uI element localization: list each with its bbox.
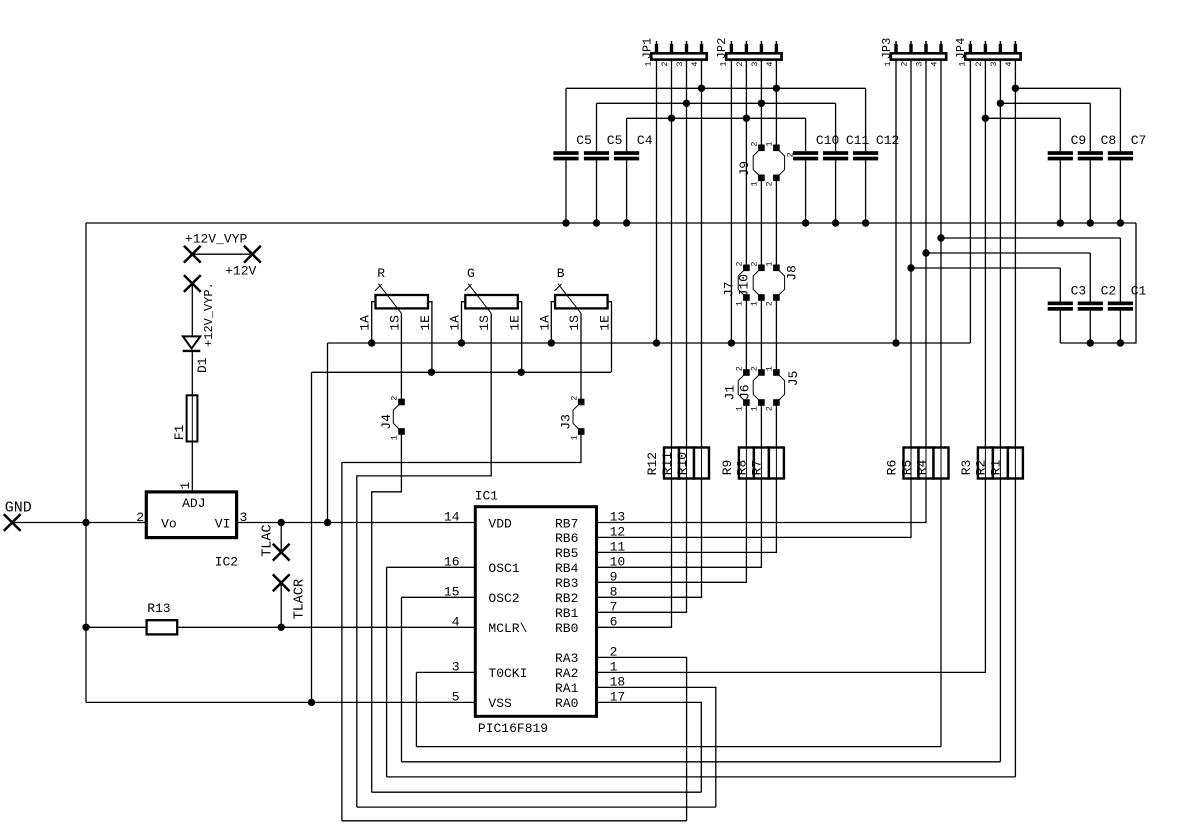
ground bus right leg down to C1-C3 ground xyxy=(1060,223,1136,343)
wire TLAC tap xyxy=(280,523,282,553)
svg-text:R12: R12 xyxy=(645,452,660,475)
wire RA3 pin2 loop xyxy=(597,657,687,820)
svg-text:C8: C8 xyxy=(1101,133,1117,148)
svg-text:RA2: RA2 xyxy=(555,666,578,681)
svg-text:2: 2 xyxy=(390,396,400,401)
wire F1 to IC2 ADJ pin1 xyxy=(191,442,193,492)
wire R3 to RA2 xyxy=(597,479,986,673)
wire R wiper to J4 xyxy=(400,313,402,402)
capacitor C8 xyxy=(1078,103,1117,223)
svg-text:JP3: JP3 xyxy=(880,38,894,60)
net wire C4-JP1.2-JP2.2-C10 xyxy=(627,117,806,119)
wire GND to IC2 VO xyxy=(12,522,146,524)
svg-text:C7: C7 xyxy=(1131,133,1147,148)
supply pin +12V_VYP xyxy=(184,231,248,262)
net wire JP3.4-C1 xyxy=(941,237,1120,239)
svg-text:1: 1 xyxy=(957,61,967,66)
supply pin +12V xyxy=(225,246,261,279)
wire JP3 pin1 to +12V rail xyxy=(895,60,897,343)
svg-text:MCLR\: MCLR\ xyxy=(488,621,527,636)
svg-text:1: 1 xyxy=(765,141,775,146)
svg-text:1E: 1E xyxy=(598,315,613,331)
svg-text:R4: R4 xyxy=(914,459,929,475)
svg-text:R2: R2 xyxy=(974,460,989,476)
wire R7 to RB5 xyxy=(597,479,777,553)
svg-text:2: 2 xyxy=(750,366,760,371)
svg-text:OSC2: OSC2 xyxy=(488,591,519,606)
jumper J10 xyxy=(735,261,752,306)
wire JP2 pin3 down to jumper J9 xyxy=(760,60,762,148)
net wire JP3.3-C2 xyxy=(926,252,1090,254)
potentiometer B xyxy=(537,266,612,372)
svg-text:1: 1 xyxy=(390,435,400,440)
svg-text:11: 11 xyxy=(610,539,626,554)
connector JP2 xyxy=(715,38,781,67)
svg-text:R3: R3 xyxy=(959,460,974,476)
svg-text:R8: R8 xyxy=(735,460,750,476)
svg-text:C4: C4 xyxy=(637,133,653,148)
wire VDD pin14 xyxy=(328,522,476,524)
wire JP2 pin3 J5 to R8 network xyxy=(760,403,762,448)
svg-text:9: 9 xyxy=(610,569,618,584)
svg-text:G: G xyxy=(467,266,475,281)
svg-text:7: 7 xyxy=(610,599,618,614)
wire OSC1 pin16 xyxy=(387,566,476,568)
wire JP3 pin3 down to R5 network xyxy=(925,60,927,448)
wire R11 to RB1 xyxy=(597,479,687,613)
wire R6 to RB6 xyxy=(597,479,912,538)
capacitor C5 xyxy=(584,103,623,223)
svg-text:Vo: Vo xyxy=(161,516,177,531)
wire RA3 bottom rail xyxy=(342,820,687,822)
svg-text:R5: R5 xyxy=(899,460,914,476)
svg-text:1S: 1S xyxy=(477,315,492,331)
svg-text:2: 2 xyxy=(765,301,775,306)
wire R2 to OSC2 rail xyxy=(999,479,1001,762)
svg-text:R11: R11 xyxy=(660,452,675,476)
wire through R12-R10 network xyxy=(671,448,673,479)
1E rail drop to VSS wire xyxy=(311,372,313,702)
supply pin TLACR xyxy=(273,574,308,619)
wire J4 to OSC-mesh (RA0 route) xyxy=(372,432,402,793)
resistor R12 xyxy=(664,448,679,479)
svg-text:8: 8 xyxy=(610,584,618,599)
VSS ground wire to IC1 xyxy=(86,701,475,703)
wire JP4 pin2 down to R3 network xyxy=(984,60,986,448)
voltage regulator IC2 xyxy=(136,492,247,569)
svg-text:J8: J8 xyxy=(785,265,800,281)
svg-text:2: 2 xyxy=(765,181,775,186)
svg-text:ADJ: ADJ xyxy=(182,496,205,511)
resistor R3 xyxy=(978,448,993,479)
wire JP2 pin2 J6 to R9 network xyxy=(745,403,747,448)
svg-text:J7: J7 xyxy=(721,281,736,297)
resistor R8 xyxy=(754,448,769,479)
wire JP2 pin4 down to jumper J9 xyxy=(775,60,777,148)
svg-text:+12V_VYP.: +12V_VYP. xyxy=(202,282,216,347)
svg-text:IC2: IC2 xyxy=(215,554,238,569)
potentiometer G xyxy=(448,266,523,372)
wire JP2 pin2 down to jumper J10 xyxy=(745,60,747,268)
wire D1 to fuse F1 xyxy=(191,351,193,395)
svg-text:RA3: RA3 xyxy=(555,651,578,666)
svg-text:2: 2 xyxy=(735,61,745,66)
svg-text:3: 3 xyxy=(675,61,685,66)
svg-text:3: 3 xyxy=(915,61,925,66)
svg-text:J10: J10 xyxy=(737,274,752,297)
svg-text:1: 1 xyxy=(750,406,760,411)
svg-text:3: 3 xyxy=(989,61,999,66)
svg-text:6: 6 xyxy=(610,614,618,629)
svg-text:JP4: JP4 xyxy=(954,38,968,60)
svg-text:1: 1 xyxy=(765,366,775,371)
supply pin TLAC xyxy=(261,524,290,560)
IC IC1 PIC16F819 xyxy=(444,489,626,737)
jumper J5 xyxy=(750,366,801,411)
svg-text:5: 5 xyxy=(452,689,460,704)
svg-text:RB7: RB7 xyxy=(555,516,578,531)
capacitor C9 xyxy=(1048,118,1087,223)
potentiometer R xyxy=(358,266,433,372)
wire TLACR to MCLR net xyxy=(280,583,282,628)
wire JP3 pin4 down to R4 network xyxy=(940,60,942,448)
svg-text:2: 2 xyxy=(735,366,745,371)
wire OSC1 drop xyxy=(386,567,388,777)
resistor R13 xyxy=(147,601,178,635)
supply pin +12V_VYP vertical xyxy=(184,275,216,347)
wire JP2 pin3 J9-J8 segment xyxy=(760,178,762,268)
svg-text:R6: R6 xyxy=(885,460,900,476)
svg-text:1: 1 xyxy=(178,482,193,490)
wire JP1 pin4 down to R10 network xyxy=(701,60,703,448)
svg-text:1: 1 xyxy=(735,301,745,306)
wire B wiper to J3 xyxy=(580,313,582,402)
wire through R6-R4 network xyxy=(910,448,912,479)
svg-text:1A: 1A xyxy=(358,315,373,331)
wire OSC2 drop xyxy=(401,597,403,762)
resistor R1 xyxy=(1008,448,1023,479)
+12V rail wire xyxy=(328,342,971,344)
svg-text:1: 1 xyxy=(765,261,775,266)
svg-text:1S: 1S xyxy=(567,315,582,331)
svg-text:4: 4 xyxy=(930,61,940,66)
svg-text:GND: GND xyxy=(5,499,32,516)
svg-text:VDD: VDD xyxy=(488,516,512,531)
wire G wiper down (RA1 route) xyxy=(357,313,491,807)
svg-text:2: 2 xyxy=(974,61,984,66)
wire RA0 bottom rail xyxy=(372,791,702,793)
wire R1 to OSC1 rail xyxy=(1014,479,1016,777)
wire OSC2 pin15 xyxy=(402,596,476,598)
capacitor C10 xyxy=(793,118,839,223)
svg-text:1: 1 xyxy=(644,61,654,66)
svg-text:2: 2 xyxy=(660,61,670,66)
wire R8 to RB4 xyxy=(597,479,762,568)
svg-text:2: 2 xyxy=(900,61,910,66)
svg-text:JP1: JP1 xyxy=(640,38,654,60)
svg-text:R13: R13 xyxy=(147,601,170,616)
svg-text:R10: R10 xyxy=(675,452,690,475)
svg-text:RA0: RA0 xyxy=(555,696,578,711)
jumper J3 xyxy=(559,396,585,441)
resistor R5 xyxy=(919,448,934,479)
svg-text:RB2: RB2 xyxy=(555,591,578,606)
svg-text:RB6: RB6 xyxy=(555,531,578,546)
svg-text:4: 4 xyxy=(690,61,700,66)
svg-text:C5: C5 xyxy=(576,133,592,148)
wire R5 to RB7 xyxy=(597,479,927,523)
svg-text:RB4: RB4 xyxy=(555,561,579,576)
wire OSC1 bottom rail xyxy=(387,776,1016,778)
svg-text:1: 1 xyxy=(610,659,618,674)
wire JP2 pin2 J10-J6 segment xyxy=(745,298,747,373)
svg-text:3: 3 xyxy=(750,61,760,66)
wire IC2 VI to VDD riser xyxy=(237,522,328,524)
net wire JP4.4-C7 xyxy=(1015,87,1120,89)
svg-text:C12: C12 xyxy=(876,133,899,148)
svg-text:JP2: JP2 xyxy=(715,38,729,60)
fuse F1 xyxy=(172,395,198,441)
capacitor C3 xyxy=(1048,268,1087,343)
svg-text:2: 2 xyxy=(569,396,579,401)
resistor R9 xyxy=(739,448,754,479)
svg-text:T0CKI: T0CKI xyxy=(488,666,527,681)
svg-text:12: 12 xyxy=(610,524,626,539)
wire T0CKI bottom rail xyxy=(416,746,941,748)
wire JP4 pin3 down to R2 network xyxy=(999,60,1001,448)
svg-text:J4: J4 xyxy=(379,414,394,430)
jumper J9 xyxy=(737,141,785,186)
wire through R9-R7 network xyxy=(745,448,747,479)
svg-text:OSC1: OSC1 xyxy=(488,561,519,576)
svg-text:J9: J9 xyxy=(737,161,752,177)
svg-text:F1: F1 xyxy=(172,424,187,440)
wire R13 to IC1 MCLR pin4 xyxy=(177,626,475,628)
connector JP1 xyxy=(640,38,706,67)
capacitor C7 xyxy=(1108,88,1147,223)
resistor R2 xyxy=(993,448,1008,479)
svg-text:1: 1 xyxy=(750,181,760,186)
svg-text:1: 1 xyxy=(718,61,728,66)
svg-text:VI: VI xyxy=(215,516,231,531)
svg-text:J6: J6 xyxy=(738,384,753,400)
svg-text:RB5: RB5 xyxy=(555,546,578,561)
svg-text:TLACR: TLACR xyxy=(293,579,308,620)
wire JP2 pin4 J5 to R7 network xyxy=(775,403,777,448)
wire JP4 pin4 down to R1 network xyxy=(1014,60,1016,448)
svg-text:13: 13 xyxy=(610,510,626,525)
ground left border wire xyxy=(85,223,87,702)
wire JP2 pin4 J9-J8 segment xyxy=(775,178,777,268)
wire R10 to RB2 xyxy=(597,479,702,598)
+12V riser to VDD junction xyxy=(327,343,329,523)
net wire C5-JP1.3-JP2.3-C11 xyxy=(597,102,836,104)
connector JP4 xyxy=(954,38,1020,67)
wire OSC2 bottom rail xyxy=(402,761,1001,763)
svg-text:C9: C9 xyxy=(1071,133,1087,148)
jumper J8 xyxy=(750,261,800,306)
svg-text:RA1: RA1 xyxy=(555,681,579,696)
svg-text:4: 4 xyxy=(765,61,775,66)
svg-text:J3: J3 xyxy=(559,414,574,430)
wire between supply pins xyxy=(192,253,252,255)
svg-text:2: 2 xyxy=(786,152,796,157)
diode D1 xyxy=(183,336,210,373)
wire R12 to RB0 xyxy=(597,479,672,628)
svg-text:2: 2 xyxy=(750,261,760,266)
svg-text:PIC16F819: PIC16F819 xyxy=(478,721,548,736)
wire JP2 pin4 J8-J5 segment xyxy=(775,298,777,373)
svg-text:B: B xyxy=(557,266,565,281)
svg-text:2: 2 xyxy=(750,141,760,146)
svg-text:1: 1 xyxy=(735,406,745,411)
svg-text:J1: J1 xyxy=(722,385,737,401)
jumper J4 xyxy=(379,396,405,441)
wire JP2 pin3 J8-J5 segment xyxy=(760,298,762,373)
wire JP1 pin2 down to R12 network xyxy=(671,60,673,448)
pot 1E rail wire xyxy=(312,371,612,373)
wire RA1 pin18 loop xyxy=(597,687,716,807)
wire MCLR net left segment xyxy=(86,626,147,628)
svg-text:1A: 1A xyxy=(537,315,552,331)
svg-text:RB0: RB0 xyxy=(555,621,578,636)
svg-text:1S: 1S xyxy=(387,315,402,331)
wire JP3 pin2 down to R6 network xyxy=(910,60,912,448)
svg-text:1: 1 xyxy=(569,435,579,440)
connector JP3 xyxy=(880,38,946,67)
svg-text:VSS: VSS xyxy=(488,696,512,711)
svg-text:RB3: RB3 xyxy=(555,576,578,591)
jumper J6 xyxy=(735,366,753,411)
capacitor C11 xyxy=(823,103,870,223)
svg-text:RB1: RB1 xyxy=(555,606,579,621)
svg-text:10: 10 xyxy=(610,554,626,569)
svg-text:R9: R9 xyxy=(720,460,735,476)
net wire C5-JP1.4-JP2.4-C12 xyxy=(566,87,866,89)
svg-text:1: 1 xyxy=(750,301,760,306)
wire T0CKI drop xyxy=(415,672,417,746)
svg-text:D1: D1 xyxy=(195,357,210,373)
net wire JP4.3-C8 xyxy=(1000,102,1090,104)
wire supply to diode D1 xyxy=(191,284,193,337)
svg-text:R: R xyxy=(377,266,385,281)
svg-text:C1: C1 xyxy=(1131,284,1147,299)
resistor R11 xyxy=(679,448,694,479)
svg-text:2: 2 xyxy=(735,261,745,266)
wire JP4 pin1 to +12V rail xyxy=(969,60,971,343)
capacitor C1 xyxy=(1108,238,1147,343)
svg-text:4: 4 xyxy=(1004,61,1014,66)
wire T0CKI pin3 xyxy=(416,671,475,673)
svg-text:1E: 1E xyxy=(508,315,523,331)
resistor R10 xyxy=(694,448,709,479)
wire R4 to T0CKI rail xyxy=(940,479,942,747)
net wire JP4.2-C9 xyxy=(985,117,1060,119)
svg-text:IC1: IC1 xyxy=(475,489,499,504)
svg-text:C3: C3 xyxy=(1071,284,1087,299)
capacitor C12 xyxy=(853,88,899,223)
svg-text:J5: J5 xyxy=(786,371,801,387)
wire J3 down (RA3 route) xyxy=(342,432,581,821)
wire JP1 pin3 down to R11 network xyxy=(686,60,688,448)
wire through R3-R1 network xyxy=(984,448,986,479)
svg-text:1E: 1E xyxy=(418,315,433,331)
resistor R7 xyxy=(769,448,784,479)
svg-text:R7: R7 xyxy=(750,460,765,476)
svg-text:C5: C5 xyxy=(607,133,623,148)
capacitor C4 xyxy=(614,118,653,223)
resistor R4 xyxy=(934,448,949,479)
capacitor C5 xyxy=(553,88,592,223)
wire RA1 bottom rail xyxy=(357,806,716,808)
wire R9 to RB3 xyxy=(597,479,747,583)
wire JP1 pin1 to +12V rail xyxy=(656,60,658,343)
ground bus wire xyxy=(86,222,1136,224)
svg-text:C2: C2 xyxy=(1101,284,1117,299)
wire JP2 pin1 to +12V rail xyxy=(730,60,732,343)
wire RA0 pin17 loop xyxy=(597,702,702,792)
svg-text:+12V: +12V xyxy=(225,264,256,279)
svg-text:TLAC: TLAC xyxy=(261,524,276,556)
capacitor C2 xyxy=(1078,253,1117,343)
svg-text:2: 2 xyxy=(765,406,775,411)
svg-text:R1: R1 xyxy=(989,459,1004,475)
svg-text:1: 1 xyxy=(883,61,893,66)
svg-text:+12V_VYP: +12V_VYP xyxy=(185,231,248,246)
net wire JP3.2-C3 xyxy=(911,267,1060,269)
svg-text:1A: 1A xyxy=(448,315,463,331)
resistor R6 xyxy=(904,448,919,479)
ground pin GND xyxy=(4,499,32,531)
